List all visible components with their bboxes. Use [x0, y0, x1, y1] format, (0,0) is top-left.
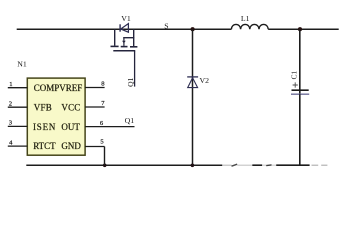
transistor Q/V1 body diode cathode bar	[119, 24, 121, 31]
transistor V1 left source stub	[114, 29, 116, 46]
node junction dot at S branch	[191, 27, 195, 31]
pin 2 wire	[8, 106, 28, 108]
wire bottom rail dark segment	[252, 164, 262, 166]
wire bottom rail faint segment	[222, 164, 231, 166]
transistor V1 body diode triangle	[121, 24, 129, 33]
wire V2 branch vertical	[192, 29, 194, 165]
svg-text:7: 7	[101, 100, 105, 107]
wire bottom rail faint segment	[237, 164, 252, 166]
svg-text:RTCT: RTCT	[33, 141, 56, 151]
svg-text:V2: V2	[200, 76, 210, 85]
wire C1 branch lower	[299, 94, 301, 165]
svg-text:ISEN: ISEN	[33, 122, 56, 132]
svg-text:L1: L1	[241, 14, 250, 23]
transistor V1 middle bar	[123, 37, 134, 39]
wire C1 branch upper	[299, 29, 301, 94]
svg-text:OUT: OUT	[61, 122, 80, 132]
svg-text:Q1: Q1	[125, 116, 135, 125]
wire bottom rail faded right tail	[312, 164, 319, 166]
pin 6 wire	[85, 126, 134, 128]
svg-text:COMPVREF: COMPVREF	[34, 83, 83, 93]
svg-text:VCC: VCC	[61, 102, 80, 112]
svg-text:4: 4	[9, 139, 13, 146]
svg-text:6: 6	[100, 120, 104, 127]
svg-text:S: S	[164, 21, 168, 30]
wire gate lead down from V1	[134, 51, 136, 87]
wire top rail input segment	[17, 28, 232, 30]
svg-text:GND: GND	[61, 141, 81, 151]
svg-text:N1: N1	[17, 59, 27, 68]
pin 7 wire	[85, 106, 105, 108]
transistor V1 arrow head	[122, 41, 126, 44]
op-amp/controller IC N1 body	[27, 78, 85, 155]
wire bottom rail faint gap	[262, 164, 266, 166]
wire bottom rail medium segment	[266, 164, 271, 167]
svg-text:3: 3	[9, 120, 13, 127]
wire bottom rail faint gap	[272, 164, 277, 166]
wire bottom rail faded right tail end	[321, 164, 327, 166]
svg-text:8: 8	[101, 81, 105, 88]
diode V2 cathode bar	[187, 76, 198, 78]
node junction dot pin5 to rail	[103, 164, 107, 168]
wire bottom rail dark slash	[232, 164, 238, 166]
svg-text:5: 5	[100, 139, 104, 146]
svg-text:VFB: VFB	[34, 102, 52, 112]
transistor V1 right contact foot	[130, 46, 137, 48]
pin 3 wire	[8, 125, 28, 127]
wire bottom ground rail main	[26, 164, 222, 166]
transistor V1 left contact foot	[111, 45, 119, 47]
svg-text:2: 2	[9, 100, 12, 107]
wire top rail after inductor	[268, 28, 339, 30]
pin 4 wire	[8, 145, 28, 147]
capacitor C1 top plate	[292, 89, 309, 91]
transistor V1 middle contact foot	[121, 46, 128, 48]
pin 1 wire	[8, 87, 28, 89]
svg-text:1: 1	[9, 81, 12, 88]
capacitor C1 bottom plate	[291, 93, 309, 95]
transistor V1 gate plate	[113, 50, 135, 52]
capacitor C1 plus sign	[293, 82, 298, 87]
inductor L1 humps	[231, 24, 268, 29]
wire bottom rail dark segment to C1	[276, 164, 309, 166]
node junction dot V2 to rail	[191, 164, 195, 168]
pin 8 wire	[85, 87, 105, 89]
svg-text:C1: C1	[289, 70, 298, 79]
node junction dot at output	[298, 27, 302, 31]
svg-text:Q1: Q1	[126, 77, 135, 86]
transistor V1 right drain stub	[133, 29, 135, 46]
pin 5 wire	[85, 146, 104, 148]
transistor V1 arrow shaft	[123, 38, 125, 46]
wire pin 5 down to rail	[104, 147, 106, 166]
diode V2 triangle	[188, 78, 198, 88]
svg-text:V1: V1	[121, 14, 131, 23]
